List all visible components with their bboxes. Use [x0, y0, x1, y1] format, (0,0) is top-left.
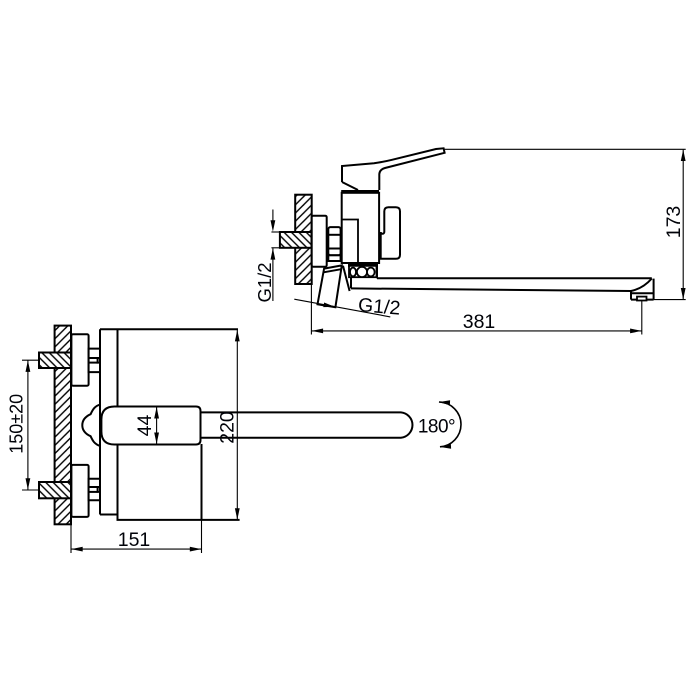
- svg-text:173: 173: [663, 206, 685, 239]
- svg-text:44: 44: [134, 415, 156, 437]
- 180 degree swivel arc: [418, 400, 461, 450]
- dim 381 (bottom horizontal): [311, 285, 641, 335]
- svg-text:220: 220: [217, 411, 239, 444]
- dim 150±20 (left vertical): [7, 360, 40, 490]
- escutcheon flange (side): [312, 216, 327, 267]
- bottom pipe (hatched): [39, 482, 71, 498]
- faucet body (side): [342, 193, 379, 263]
- svg-text:180°: 180°: [418, 416, 455, 437]
- svg-text:151: 151: [118, 529, 151, 551]
- dim 44 (inside cartridge): [134, 407, 159, 444]
- G1/2 pipe dimension (left, vertical): [254, 210, 280, 303]
- nut bottom (front): [89, 479, 100, 501]
- body top band: [341, 190, 379, 193]
- escutcheon top (front): [71, 334, 88, 385]
- faucet body (front): [100, 329, 240, 520]
- wall bar (hatched): [55, 326, 71, 525]
- cartridge body cylinder (front, stadium): [101, 407, 200, 445]
- nut top (front): [89, 349, 100, 373]
- spout aerator insert: [637, 297, 647, 301]
- spout (front, stadium): [202, 412, 413, 437]
- svg-text:150±20: 150±20: [7, 394, 27, 454]
- swivel collar with balls: [348, 265, 378, 277]
- escutcheon bottom (front): [71, 465, 88, 517]
- dim 173 (right vertical): [445, 149, 686, 299]
- handle end bump (front): [82, 404, 100, 446]
- svg-text:G1/2: G1/2: [254, 262, 275, 302]
- svg-text:381: 381: [463, 311, 496, 333]
- wall section (hatched): [295, 195, 312, 284]
- hex nut stack (side): [328, 227, 340, 261]
- G1/2 leader (lower): [294, 294, 401, 320]
- shower outlet connector (angled): [318, 265, 350, 307]
- body step line: [342, 220, 358, 264]
- dim 151 (bottom horizontal): [71, 520, 202, 553]
- svg-text:G1/2: G1/2: [357, 294, 401, 320]
- handle lever (side): [342, 148, 445, 190]
- diverter tab (side, right): [381, 207, 400, 259]
- supply pipe through wall (hatched): [280, 232, 312, 248]
- spout (side): [351, 263, 654, 299]
- top pipe (hatched): [39, 353, 71, 369]
- dim 220 (vertical): [217, 330, 240, 520]
